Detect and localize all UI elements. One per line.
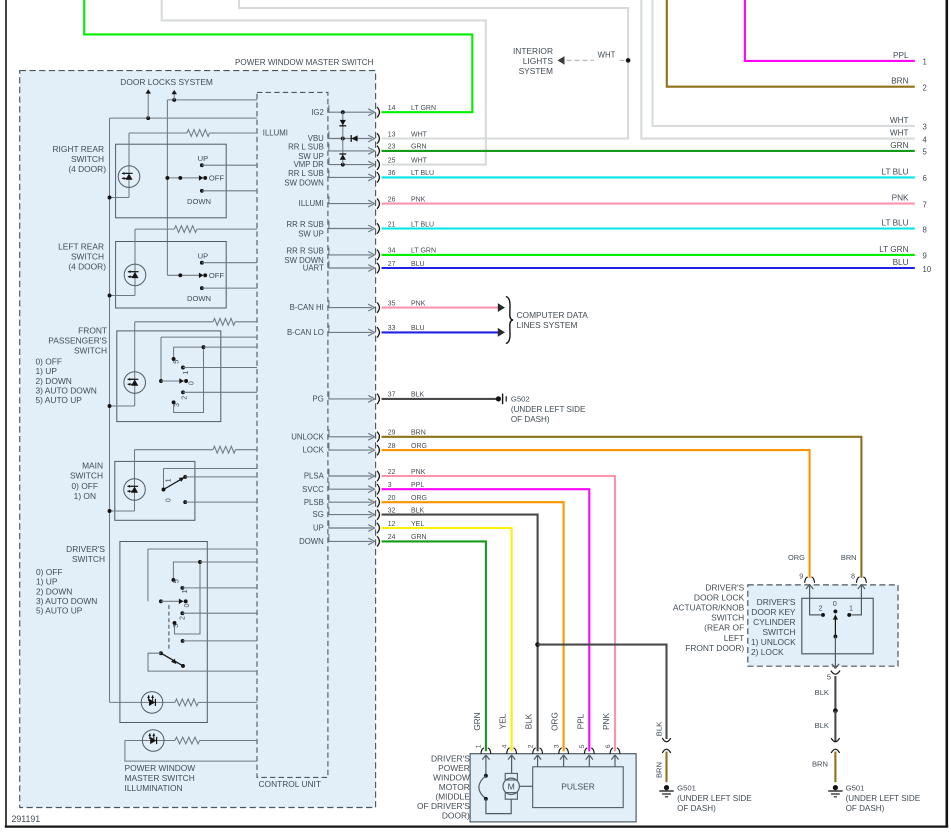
svg-text:1: 1 [163, 478, 172, 482]
LED left rear switch illumination [134, 229, 136, 295]
diode D3 (VMP DR to VBU, pointing up) [340, 154, 346, 159]
svg-text:9: 9 [799, 571, 803, 580]
svg-text:UP: UP [198, 154, 209, 163]
svg-text:14: 14 [388, 105, 396, 112]
wire motor to pulser [519, 785, 532, 787]
node bus B junction [165, 176, 169, 180]
svg-text:G501: G501 [677, 783, 696, 792]
svg-text:CYLINDER: CYLINDER [753, 617, 795, 627]
svg-text:LT BLU: LT BLU [411, 170, 434, 177]
svg-text:10: 10 [923, 265, 932, 274]
wire contact 0 to control unit [185, 501, 257, 503]
svg-text:PLSA: PLSA [304, 472, 325, 481]
contact 2 key cylinder [821, 613, 825, 617]
svg-text:RR L SUB: RR L SUB [288, 169, 324, 178]
svg-text:BRN: BRN [891, 77, 908, 86]
svg-text:BLK: BLK [654, 722, 663, 736]
svg-text:SWITCH: SWITCH [71, 154, 104, 164]
svg-text:PG: PG [313, 395, 324, 404]
diode chain vertical wire (IG2-VBU-VMP DR) [342, 112, 344, 164]
svg-text:3: 3 [553, 744, 560, 748]
svg-text:37: 37 [388, 392, 396, 399]
svg-text:GRN: GRN [411, 534, 427, 541]
svg-text:0) OFF: 0) OFF [36, 356, 63, 366]
svg-text:SVCC: SVCC [302, 485, 324, 494]
LED main switch illumination [134, 450, 136, 511]
wire contact 1 to control unit [182, 587, 257, 589]
pin 35 B-CAN HI connector [328, 307, 372, 309]
contact OFF left rear with arrow [199, 273, 203, 279]
svg-text:13: 13 [388, 131, 396, 138]
wire pin9 to contact 2 [810, 590, 821, 615]
svg-text:DRIVER'S: DRIVER'S [705, 582, 744, 592]
pin 37 PG connector [328, 398, 372, 400]
wire LED return main switch [110, 510, 135, 512]
wire BLK branch to left G501 [538, 645, 667, 739]
ground G502 [496, 396, 501, 401]
node interior lights tap [626, 58, 631, 63]
wire ORG LOCK to door lock pin 9 [382, 450, 810, 578]
node bus A junction left rear [108, 294, 112, 298]
mechanical link dashed driver's switch [168, 605, 170, 650]
svg-text:G501: G501 [846, 783, 865, 792]
switch box front passenger [117, 331, 221, 422]
wire ORG PLSB down to pulser [382, 502, 564, 751]
svg-text:FRONT DOOR): FRONT DOOR) [685, 643, 744, 653]
svg-text:0: 0 [833, 599, 837, 608]
svg-text:ORG: ORG [551, 712, 560, 731]
svg-text:(4 DOOR): (4 DOOR) [68, 164, 106, 174]
wire UP contact to control unit [202, 262, 257, 264]
svg-text:INTERIOR: INTERIOR [513, 46, 553, 56]
wire contact 1 to control unit [183, 367, 257, 369]
driver's power window motor box [470, 754, 636, 822]
svg-text:LINES SYSTEM: LINES SYSTEM [517, 320, 578, 330]
svg-text:5) AUTO UP: 5) AUTO UP [36, 606, 83, 616]
svg-text:BLK: BLK [411, 392, 425, 399]
wire LED return left rear [110, 295, 136, 297]
svg-text:BLK: BLK [411, 507, 425, 514]
svg-text:B-CAN HI: B-CAN HI [290, 303, 324, 312]
resistor left rear illumination [135, 228, 174, 230]
wire LED return front passenger [110, 405, 135, 407]
wire BRN to ground G501 right [834, 752, 836, 783]
motor M circle [503, 778, 519, 794]
svg-text:28: 28 [388, 443, 396, 450]
svg-text:5: 5 [923, 148, 928, 157]
svg-text:(UNDER LEFT SIDE: (UNDER LEFT SIDE [511, 405, 586, 414]
node junction arrow2 [172, 98, 176, 102]
svg-text:5) AUTO UP: 5) AUTO UP [36, 395, 83, 405]
ground G501 right [833, 785, 838, 790]
pin 25 VMP DR connector [328, 164, 372, 166]
wire BRN to right edge (2) [667, 0, 915, 87]
svg-text:4: 4 [501, 744, 508, 748]
svg-text:DOOR KEY: DOOR KEY [751, 607, 796, 617]
svg-text:1: 1 [923, 58, 927, 67]
wire contact 2 to control unit [183, 391, 257, 393]
svg-text:PNK: PNK [411, 300, 426, 307]
svg-text:ORG: ORG [788, 553, 805, 562]
svg-text:WINDOW: WINDOW [433, 772, 470, 782]
svg-text:UP: UP [313, 524, 324, 533]
svg-text:FRONT: FRONT [78, 325, 107, 335]
pin 3 SVCC connector [328, 488, 372, 490]
resistor main switch illumination [135, 449, 214, 451]
svg-text:26: 26 [388, 196, 396, 203]
svg-text:2: 2 [527, 744, 534, 748]
power window master switch enclosure (dashed box) [20, 71, 376, 808]
svg-text:8: 8 [851, 571, 855, 580]
svg-text:MASTER SWITCH: MASTER SWITCH [125, 773, 195, 783]
diode D2 (VBU row, pointing left) [351, 135, 357, 141]
wire master switch illumination return [125, 741, 257, 762]
key cylinder switch box [802, 598, 873, 654]
svg-text:B-CAN LO: B-CAN LO [287, 328, 324, 337]
wire loop top to control unit [204, 346, 258, 348]
svg-text:1: 1 [181, 371, 190, 375]
svg-text:SWITCH: SWITCH [71, 252, 104, 262]
svg-text:BLK: BLK [525, 713, 534, 729]
pin 33 B-CAN LO connector [328, 331, 372, 333]
svg-text:OF DASH): OF DASH) [846, 804, 885, 813]
svg-text:POWER: POWER [438, 763, 470, 773]
svg-text:1: 1 [180, 589, 189, 593]
inline connector left ground chain [662, 738, 670, 742]
wire pin8 to contact 1 [851, 590, 861, 615]
svg-text:GRN: GRN [411, 144, 427, 151]
switch box main [115, 461, 195, 520]
svg-text:3: 3 [171, 624, 180, 628]
svg-text:DOWN: DOWN [187, 294, 211, 303]
svg-text:5: 5 [172, 579, 181, 583]
svg-text:DOWN: DOWN [187, 197, 211, 206]
contact 1 driver's [180, 586, 184, 590]
resistor front passenger illumination [135, 321, 213, 323]
svg-text:RIGHT REAR: RIGHT REAR [53, 144, 105, 154]
key cylinder lever (center position) [834, 617, 836, 637]
contact 2 driver's [180, 611, 184, 615]
svg-text:LT BLU: LT BLU [882, 219, 909, 228]
svg-text:9: 9 [923, 252, 927, 261]
svg-text:OF DASH): OF DASH) [677, 804, 716, 813]
svg-text:5: 5 [827, 673, 831, 682]
svg-text:DRIVER'S: DRIVER'S [431, 753, 470, 763]
svg-text:SG: SG [313, 510, 324, 519]
svg-text:ACTUATOR/KNOB: ACTUATOR/KNOB [673, 603, 745, 613]
wire BLK splice to connector [834, 711, 836, 742]
svg-text:PULSER: PULSER [561, 782, 595, 792]
svg-text:BLK: BLK [815, 688, 829, 697]
pin 20 PLSB connector [328, 501, 372, 503]
node loop top contact [202, 345, 206, 349]
svg-text:36: 36 [388, 170, 396, 177]
svg-text:RR R SUB: RR R SUB [287, 220, 324, 229]
svg-text:291191: 291191 [12, 814, 41, 824]
svg-text:3: 3 [923, 123, 927, 132]
svg-text:SWITCH: SWITCH [70, 471, 103, 481]
pin 14 IG2 connector [328, 111, 372, 113]
svg-text:(REAR OF: (REAR OF [704, 623, 744, 633]
svg-text:3: 3 [388, 482, 392, 489]
wire WHT to right edge (4) [641, 0, 915, 139]
pin 32 SG connector [328, 514, 372, 516]
svg-text:MAIN: MAIN [82, 461, 103, 471]
pin 27 UART connector [328, 267, 372, 269]
wire contact 1 to control unit [185, 476, 257, 478]
contact 5 front passenger [172, 357, 176, 361]
contact UP left rear [200, 261, 204, 265]
contact 1 key cylinder [847, 613, 851, 617]
inline connector right ground chain [831, 738, 839, 742]
svg-text:WHT: WHT [890, 116, 909, 125]
svg-text:7: 7 [923, 200, 927, 209]
wire bus A (LED return bus) [109, 118, 111, 702]
contact 5 driver's [171, 578, 175, 582]
motor M commutator top [511, 764, 513, 773]
svg-text:UART: UART [303, 264, 324, 273]
wire BRN UNLOCK to door lock pin 8 [382, 437, 862, 578]
contact 2 front passenger [181, 390, 185, 394]
wire YEL UP down to motor [382, 528, 512, 751]
wire UP contact to control unit [202, 164, 257, 166]
contact up driver's pole 2 [181, 639, 185, 643]
pin 26 ILLUMI connector [328, 203, 372, 205]
contact common main switch [162, 488, 166, 492]
wire contact loop front passenger (5-3 link) [174, 347, 204, 359]
svg-text:WHT: WHT [890, 129, 909, 138]
svg-text:ORG: ORG [411, 443, 427, 450]
svg-text:DRIVER'S: DRIVER'S [66, 544, 105, 554]
svg-text:RR L SUB: RR L SUB [288, 142, 324, 151]
svg-text:27: 27 [388, 261, 396, 268]
svg-text:IG2: IG2 [311, 108, 324, 117]
svg-text:LEFT REAR: LEFT REAR [58, 242, 104, 252]
svg-text:PPL: PPL [893, 51, 909, 60]
svg-text:PASSENGER'S: PASSENGER'S [48, 335, 107, 345]
svg-text:POWER WINDOW: POWER WINDOW [125, 763, 196, 773]
svg-text:2) LOCK: 2) LOCK [751, 647, 784, 657]
svg-text:LT BLU: LT BLU [882, 167, 909, 176]
wire motor bottom [486, 799, 511, 814]
svg-text:ILLUMI: ILLUMI [299, 199, 324, 208]
svg-text:4: 4 [923, 135, 928, 144]
wire contact loop driver's (5-3 link) [173, 562, 200, 580]
svg-text:UP: UP [198, 251, 209, 260]
node junction arrow1 [146, 116, 150, 120]
svg-text:OF DASH): OF DASH) [511, 415, 550, 424]
svg-text:29: 29 [388, 430, 396, 437]
wire BLU pin 27 to right edge (10) [382, 267, 915, 269]
node OFF row second junction [178, 176, 182, 180]
svg-text:0: 0 [164, 498, 173, 502]
svg-text:DOWN: DOWN [299, 537, 324, 546]
svg-text:(UNDER LEFT SIDE: (UNDER LEFT SIDE [677, 794, 752, 803]
pin 12 UP connector [328, 527, 372, 529]
wire PPL SVCC down to pulser [382, 489, 590, 751]
svg-text:SWITCH: SWITCH [72, 554, 105, 564]
control unit inner dashed box [257, 92, 328, 777]
svg-text:DRIVER'S: DRIVER'S [757, 597, 796, 607]
node bus A junction main switch [108, 509, 112, 513]
wire WHT pin 25 to top edge [162, 0, 486, 165]
pin 23 RR L SUB SW UP connector [328, 150, 372, 152]
node bus A junction right rear [108, 196, 112, 200]
wire OFF row right rear [167, 177, 203, 179]
svg-text:PNK: PNK [602, 713, 611, 730]
svg-text:6: 6 [605, 744, 612, 748]
svg-text:ILLUMI: ILLUMI [263, 128, 288, 137]
wire common feed main switch [164, 468, 258, 470]
pin 5 connector (exit bottom) [834, 663, 836, 669]
svg-text:22: 22 [388, 469, 396, 476]
svg-text:OFF: OFF [209, 271, 225, 280]
pin 13 VBU connector [328, 138, 372, 140]
pin 36 RR L SUB SW DOWN connector [328, 176, 372, 178]
wire LED return right rear [110, 197, 130, 199]
svg-text:BRN: BRN [411, 430, 426, 437]
contact common 0 front passenger with arrow [159, 379, 163, 383]
svg-text:33: 33 [388, 325, 396, 332]
svg-text:32: 32 [388, 507, 396, 514]
pulser box [533, 767, 624, 808]
svg-text:1) UP: 1) UP [36, 366, 58, 376]
contact common 0 driver's pole 1 with arrow [159, 599, 163, 603]
svg-text:BLK: BLK [815, 721, 829, 730]
svg-text:MOTOR: MOTOR [439, 782, 470, 792]
svg-text:2: 2 [177, 616, 186, 620]
svg-text:LT GRN: LT GRN [411, 105, 436, 112]
svg-text:RR R SUB: RR R SUB [287, 246, 324, 255]
wire PNK PLSA down to pulser [382, 476, 616, 751]
LED right rear switch illumination [128, 133, 130, 198]
svg-text:12: 12 [388, 521, 396, 528]
svg-text:0: 0 [186, 381, 195, 385]
wire door locks feed row 1 [110, 117, 258, 119]
resistor master switch illumination [175, 737, 200, 744]
svg-text:1) ON: 1) ON [74, 491, 96, 501]
diode D1 (IG2 to VBU, pointing down) [340, 120, 346, 126]
switch lever driver's pole 2 (thrown down) [161, 653, 182, 665]
contact 3 front passenger [172, 400, 176, 404]
wire arrow1 vertical to door locks system [147, 94, 149, 119]
svg-text:20: 20 [388, 495, 396, 502]
svg-text:DOOR LOCK: DOOR LOCK [694, 592, 745, 602]
wire LT GRN pin 14 to top edge [84, 0, 472, 112]
switch box left rear [116, 242, 227, 309]
svg-text:0: 0 [182, 604, 191, 608]
contact OFF right rear with arrow [199, 175, 203, 181]
svg-text:35: 35 [388, 300, 396, 307]
wire BLK PG to ground G502 [382, 398, 497, 400]
svg-text:SW UP: SW UP [298, 230, 324, 239]
svg-text:23: 23 [388, 144, 396, 151]
wire contact 2 to control unit [182, 612, 257, 614]
wire PNK B-CAN HI to computer data lines [382, 307, 499, 309]
svg-text:SWITCH: SWITCH [711, 613, 744, 623]
wires into pulser top [537, 766, 539, 768]
svg-text:LT GRN: LT GRN [879, 245, 908, 254]
svg-text:0) OFF: 0) OFF [36, 567, 63, 577]
svg-text:GRN: GRN [890, 141, 908, 150]
resistor right rear illumination [129, 132, 187, 134]
svg-text:LIGHTS: LIGHTS [523, 56, 554, 66]
svg-text:2: 2 [923, 84, 927, 93]
contact 1 main switch [183, 475, 187, 479]
svg-text:SWITCH: SWITCH [74, 345, 107, 355]
svg-text:1: 1 [476, 744, 483, 748]
contact DOWN left rear [200, 286, 204, 290]
switch box right rear [116, 144, 227, 218]
node SG ground branch junction [535, 642, 540, 647]
svg-text:2) DOWN: 2) DOWN [36, 586, 72, 596]
page frame right border [945, 0, 948, 828]
wire PPL to right edge (1) [745, 0, 915, 61]
driver's door lock actuator/knob switch dashed box [748, 585, 898, 666]
node loop top contact driver's [198, 560, 202, 564]
pin 24 DOWN connector [328, 540, 372, 542]
wire BLU B-CAN LO to computer data lines [382, 331, 499, 333]
svg-text:CONTROL UNIT: CONTROL UNIT [259, 779, 322, 789]
svg-text:BRN: BRN [841, 553, 857, 562]
svg-text:YEL: YEL [499, 713, 508, 729]
svg-text:(MIDDLE: (MIDDLE [435, 791, 470, 801]
wire LT BLU pin 21 to right edge (8) [382, 227, 915, 229]
contact 3 driver's [173, 621, 177, 625]
svg-text:PPL: PPL [576, 713, 585, 729]
svg-text:PLSB: PLSB [304, 498, 324, 507]
wire common feed front passenger [161, 336, 257, 338]
svg-text:YEL: YEL [411, 521, 424, 528]
node OFF row junction [178, 273, 182, 277]
svg-text:5: 5 [171, 360, 180, 364]
svg-text:PNK: PNK [411, 196, 426, 203]
svg-text:M: M [508, 782, 515, 792]
svg-text:1: 1 [849, 603, 853, 612]
svg-text:2: 2 [819, 603, 823, 612]
wire loop top to control unit [200, 561, 257, 563]
svg-text:1) UNLOCK: 1) UNLOCK [751, 637, 796, 647]
svg-text:LT GRN: LT GRN [411, 248, 436, 255]
svg-text:WHT: WHT [411, 131, 428, 138]
svg-text:25: 25 [388, 157, 396, 164]
svg-text:ILLUMINATION: ILLUMINATION [125, 783, 183, 793]
svg-text:3) AUTO DOWN: 3) AUTO DOWN [36, 596, 97, 606]
wire bus B (switch OFF common) [166, 100, 168, 275]
svg-text:PNK: PNK [411, 469, 426, 476]
wire BLK SG down to pulser and ground branch [382, 515, 538, 752]
page frame left border [5, 0, 7, 828]
svg-text:5: 5 [579, 744, 586, 748]
motor circuit breaker arc [485, 764, 487, 776]
motor M commutator bottom [505, 793, 517, 800]
contact 1 front passenger [181, 366, 185, 370]
svg-text:34: 34 [388, 248, 396, 255]
pin 22 PLSA connector [328, 475, 372, 477]
wire LT GRN pin 34 to right edge (9) [382, 254, 915, 256]
svg-text:SYSTEM: SYSTEM [519, 66, 553, 76]
svg-text:WHT: WHT [411, 157, 428, 164]
svg-text:GRN: GRN [473, 712, 482, 730]
brace computer data lines system [506, 297, 513, 344]
dashed WHT branch to interior lights system [567, 59, 595, 61]
wire DOWN contact to control unit [202, 190, 257, 192]
svg-text:BRN: BRN [812, 759, 828, 768]
pin 28 LOCK connector [328, 449, 372, 451]
svg-text:1) UP: 1) UP [36, 577, 58, 587]
svg-text:3) AUTO DOWN: 3) AUTO DOWN [36, 386, 97, 396]
svg-text:SWITCH: SWITCH [762, 627, 795, 637]
